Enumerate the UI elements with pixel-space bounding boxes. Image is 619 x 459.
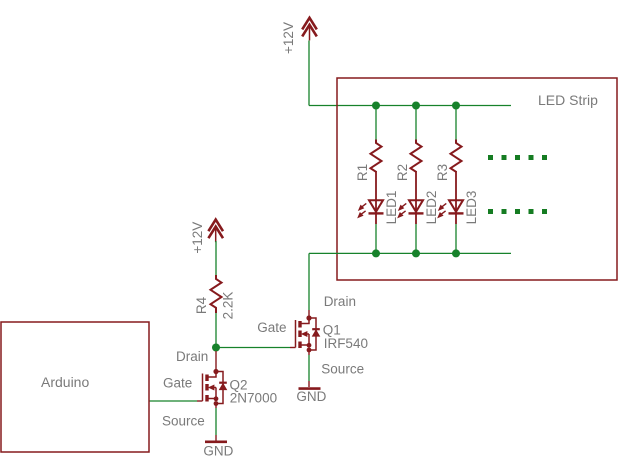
node junction gate net / Q2 drain [212,344,220,352]
wire Arduino output to Q2 gate [149,400,197,402]
node junction top bus / branch 3 [452,102,460,110]
svg-text:GND: GND [203,444,233,459]
supply +12V symbol (top, net to LED strip) [302,18,317,41]
node junction bottom bus / branch 2 [412,249,420,257]
svg-text:Source: Source [321,361,364,376]
continuation dots row lower [488,209,547,214]
wire bottom bus (LED cathode return) [309,252,511,254]
wire branch2 upper segment [415,106,417,140]
node junction top bus / branch 2 [412,102,420,110]
svg-text:Arduino: Arduino [41,374,89,390]
wire from +12V down to top bus [308,41,310,106]
svg-text:+12V: +12V [281,22,296,54]
svg-text:R1: R1 [355,164,370,181]
svg-text:LED3: LED3 [464,191,479,225]
continuation dots row upper [488,155,547,160]
ground GND symbol (Q2 source) [205,440,227,443]
svg-text:R3: R3 [435,164,450,181]
transistor Q2 2N7000 N-MOSFET [203,369,227,406]
svg-text:LED1: LED1 [384,191,399,225]
svg-text:LED2: LED2 [424,191,439,225]
LED Strip module box [337,78,617,280]
svg-text:R2: R2 [395,164,410,181]
wire branch3 lower segment [455,224,457,253]
resistor R3 [451,140,462,173]
svg-text:IRF540: IRF540 [324,336,368,351]
wire branch2 lower segment [415,224,417,253]
svg-text:2N7000: 2N7000 [230,391,277,406]
node junction bottom bus / branch 1 [372,249,380,257]
wire +12V to R4 [215,241,217,275]
svg-text:Drain: Drain [176,349,208,364]
svg-text:GND: GND [296,389,326,404]
LED LED2 [398,172,424,224]
wire Q1 source to ground [308,350,310,355]
LED LED3 [438,172,464,224]
wire top +12V bus [309,105,511,107]
svg-text:Drain: Drain [324,294,356,309]
wire node down to Q2 drain [215,351,217,372]
svg-text:Gate: Gate [163,376,192,391]
transistor Q1 IRF540 N-MOSFET [296,315,320,352]
wire Q2 source to ground [215,404,217,409]
resistor R4 [211,275,222,313]
wire gate net from node to Q1 gate [216,347,290,349]
ground GND symbol (Q1 source) [299,387,321,390]
svg-text:Gate: Gate [257,320,286,335]
svg-text:Source: Source [162,414,205,429]
node junction bottom bus / branch 3 [452,249,460,257]
svg-text:LED Strip: LED Strip [538,92,598,108]
svg-text:2.2K: 2.2K [221,292,236,320]
Arduino module box [1,322,149,452]
supply +12V symbol (R4 pull-up) [208,220,223,243]
resistor R1 [371,140,382,173]
LED LED1 [358,172,384,224]
node junction top bus / branch 1 [372,102,380,110]
wire R4 to gate node [215,313,217,348]
wire branch1 lower segment [375,224,377,253]
wire Q1 drain riser [308,253,310,310]
svg-text:R4: R4 [194,296,209,314]
resistor R2 [411,140,422,173]
svg-text:+12V: +12V [190,222,205,254]
wire branch3 upper segment [455,106,457,140]
wire branch1 upper segment [375,106,377,140]
